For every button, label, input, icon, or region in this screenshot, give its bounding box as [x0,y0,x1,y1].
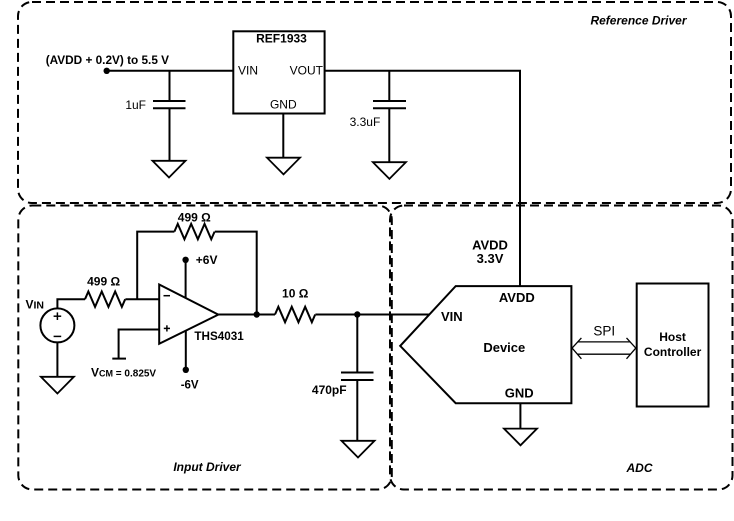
svg-text:GND: GND [270,97,297,111]
svg-text:470pF: 470pF [312,383,347,397]
svg-text:VCM = 0.825V: VCM = 0.825V [91,366,156,380]
svg-text:Reference Driver: Reference Driver [590,14,687,28]
svg-text:1uF: 1uF [125,98,146,112]
svg-text:Controller: Controller [644,345,702,359]
svg-text:10 Ω: 10 Ω [282,287,309,301]
svg-text:VOUT: VOUT [290,63,324,77]
svg-text:+6V: +6V [196,253,218,267]
svg-text:499 Ω: 499 Ω [178,210,211,224]
svg-text:GND: GND [505,386,534,401]
svg-text:AVDD: AVDD [499,290,535,305]
svg-text:3.3V: 3.3V [477,251,504,266]
svg-text:499 Ω: 499 Ω [87,275,120,289]
svg-text:(AVDD + 0.2V) to 5.5 V: (AVDD + 0.2V) to 5.5 V [46,53,169,67]
svg-text:VIN: VIN [441,309,463,324]
svg-text:REF1933: REF1933 [256,31,307,45]
svg-text:ADC: ADC [626,461,653,475]
svg-text:Input Driver: Input Driver [173,460,242,474]
svg-text:Device: Device [483,340,525,355]
svg-text:Host: Host [659,330,686,344]
svg-text:3.3uF: 3.3uF [350,115,381,129]
svg-text:VIN: VIN [26,298,45,312]
svg-text:-6V: -6V [181,379,199,391]
svg-text:THS4031: THS4031 [194,330,244,343]
svg-text:SPI: SPI [593,324,615,339]
svg-text:VIN: VIN [238,63,258,77]
